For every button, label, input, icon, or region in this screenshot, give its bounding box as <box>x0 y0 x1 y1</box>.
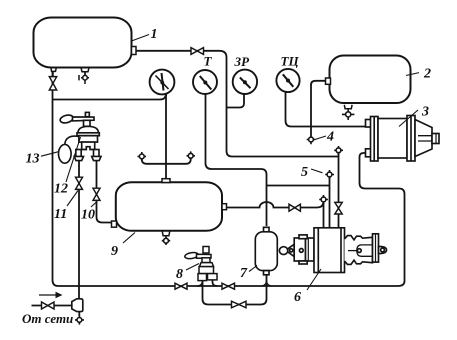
svg-text:11: 11 <box>54 207 67 222</box>
svg-text:ЗР: ЗР <box>234 54 251 69</box>
svg-text:От сети: От сети <box>22 311 73 326</box>
svg-text:7: 7 <box>240 266 248 281</box>
svg-text:Т: Т <box>204 54 213 69</box>
svg-text:2: 2 <box>423 67 431 82</box>
svg-text:6: 6 <box>294 290 301 305</box>
svg-text:5: 5 <box>301 165 308 180</box>
svg-text:8: 8 <box>176 267 183 282</box>
svg-text:ТЦ: ТЦ <box>281 54 300 69</box>
svg-text:13: 13 <box>26 152 40 167</box>
svg-text:3: 3 <box>421 105 429 120</box>
svg-text:1: 1 <box>151 27 158 42</box>
svg-text:12: 12 <box>54 182 68 197</box>
svg-text:4: 4 <box>326 130 334 145</box>
svg-text:9: 9 <box>111 244 118 259</box>
svg-text:10: 10 <box>81 208 95 223</box>
